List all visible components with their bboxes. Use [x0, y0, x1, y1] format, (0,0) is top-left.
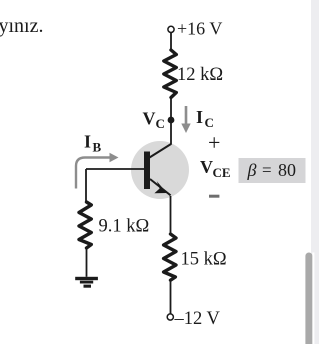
svg-text:B: B: [93, 140, 102, 155]
svg-text:V: V: [200, 157, 213, 177]
svg-text:=: =: [262, 161, 272, 180]
svg-text:C: C: [205, 115, 214, 130]
svg-text:+: +: [208, 130, 220, 155]
svg-text:yınız.: yınız.: [0, 15, 44, 37]
svg-text:C: C: [156, 116, 165, 131]
svg-text:15 kΩ: 15 kΩ: [181, 250, 227, 270]
svg-text:I: I: [196, 107, 203, 127]
svg-text:β: β: [247, 160, 257, 180]
svg-text:80: 80: [278, 160, 296, 180]
svg-text:+16 V: +16 V: [177, 19, 222, 39]
svg-text:9.1 kΩ: 9.1 kΩ: [99, 217, 150, 237]
svg-text:I: I: [84, 132, 91, 152]
svg-text:V: V: [143, 109, 156, 129]
svg-text:12 kΩ: 12 kΩ: [177, 65, 223, 85]
svg-text:–12 V: –12 V: [174, 309, 221, 329]
svg-text:CE: CE: [213, 165, 231, 180]
